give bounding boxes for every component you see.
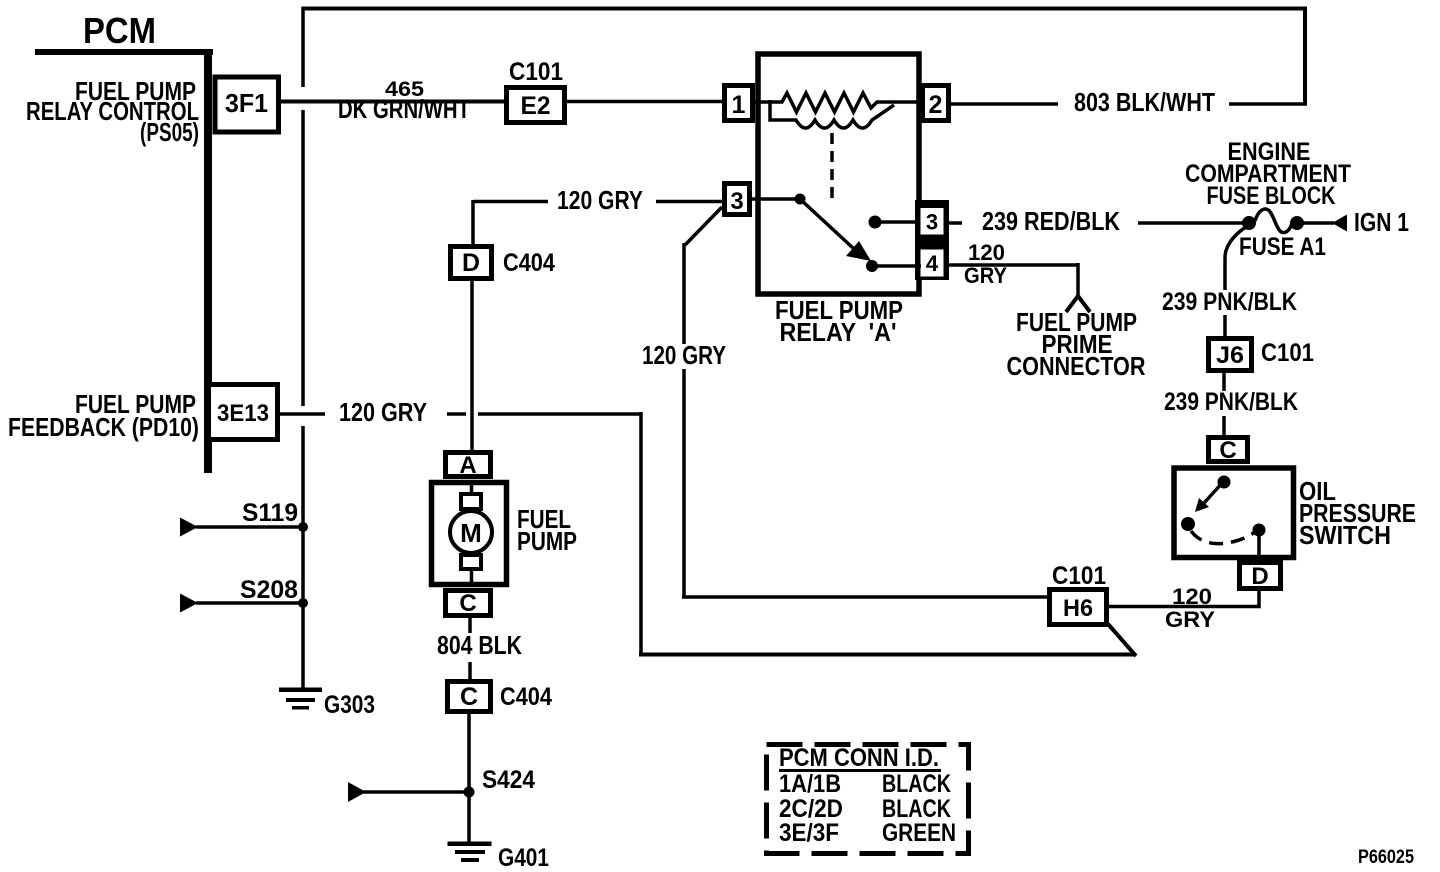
svg-text:120 GRY: 120 GRY (339, 397, 427, 427)
svg-text:3F1: 3F1 (225, 88, 268, 118)
svg-text:GREEN: GREEN (882, 819, 956, 847)
svg-text:C: C (1219, 437, 1236, 464)
top bus line (304, 7, 1307, 11)
relay switch blade arrowhead (846, 241, 871, 261)
fuse A1 right terminal dot (1290, 216, 1304, 230)
fuel pump relay A outer box (758, 54, 919, 294)
svg-text:DK GRN/WHT: DK GRN/WHT (338, 94, 470, 124)
splice S119 (180, 499, 308, 537)
connector C404 pin C box (448, 682, 491, 712)
svg-text:120 GRY: 120 GRY (642, 340, 726, 370)
relay dashed actuator line (830, 133, 834, 199)
svg-text:120: 120 (1172, 584, 1212, 609)
relay pin 3/4 right slab (915, 200, 949, 280)
label FUEL PUMP PRIME CONNECTOR (1007, 307, 1146, 381)
connector C404 pin D box (451, 247, 492, 279)
relay switch common wire (752, 197, 800, 201)
svg-text:C101: C101 (1052, 562, 1106, 590)
svg-text:C101: C101 (1261, 339, 1314, 367)
feedback wire long horizontal (639, 653, 1136, 657)
wire 120 GRY from C404 D up and right to relay pin 3 (473, 200, 548, 204)
svg-text:3E13: 3E13 (217, 400, 269, 427)
pin 3F1 box (215, 77, 279, 132)
wire 239 PNK/BLK below J6 (1222, 373, 1226, 391)
svg-text:BLACK: BLACK (882, 770, 951, 798)
relay switch pivot dot (795, 194, 806, 205)
left long vertical wire (with hops) (301, 7, 305, 88)
svg-text:S424: S424 (482, 766, 535, 794)
diagonal wire from relay pin 3 down (685, 207, 722, 245)
oil switch top contact dot (1218, 476, 1231, 489)
wire 120 GRY from relay pin 4 (944, 263, 1078, 267)
fuel pump prime connector fork (1066, 296, 1090, 312)
wire from C404 D down to fuel pump A (470, 281, 474, 452)
svg-text:239 PNK/BLK: 239 PNK/BLK (1162, 288, 1297, 316)
fuel pump body box (432, 483, 507, 585)
label OIL PRESSURE SWITCH (1299, 476, 1416, 550)
label FUEL PUMP FEEDBACK (PD10) (8, 389, 199, 442)
svg-text:E2: E2 (521, 92, 551, 120)
oil pressure switch body box (1174, 468, 1294, 558)
svg-text:D: D (1251, 563, 1268, 590)
svg-text:IGN 1: IGN 1 (1354, 207, 1409, 237)
svg-text:H6: H6 (1063, 595, 1093, 622)
svg-text:FUSE A1: FUSE A1 (1239, 233, 1326, 261)
fuse A1 element curve (1255, 209, 1292, 233)
fuel pump bottom tab (461, 555, 481, 569)
svg-text:G303: G303 (324, 691, 375, 719)
oil switch blade (1204, 481, 1224, 503)
oil switch left contact dot (1181, 517, 1195, 531)
svg-text:RELAY 'A': RELAY 'A' (780, 317, 897, 347)
svg-text:PUMP: PUMP (517, 526, 577, 556)
fuel pump top tab (461, 494, 481, 509)
relay pin 3 box left (725, 184, 750, 215)
svg-text:M: M (460, 518, 482, 548)
wire 803 BLK/WHT from pin 2 (949, 102, 1058, 106)
fuel pump motor circle M (450, 511, 492, 553)
relay pin 4 box (921, 250, 944, 277)
relay contact dot pin 4 (866, 260, 878, 272)
svg-text:C: C (460, 683, 478, 711)
relay pin 2 box (923, 86, 949, 121)
label FUEL PUMP RELAY CONTROL (PS05) (26, 76, 199, 147)
svg-text:3E/3F: 3E/3F (779, 819, 839, 847)
svg-text:GRY: GRY (964, 263, 1007, 288)
vertical 120 GRY wire to H6 (682, 243, 686, 344)
fuel pump pin C box (446, 591, 491, 616)
feedback wire diagonal joining H6 (1108, 624, 1136, 656)
svg-text:C404: C404 (500, 683, 552, 711)
svg-text:803 BLK/WHT: 803 BLK/WHT (1074, 87, 1215, 117)
fuse A1 left terminal dot (1242, 216, 1256, 230)
svg-text:PCM: PCM (83, 10, 156, 51)
splice S424 (348, 766, 535, 802)
fuel pump pin A box (446, 453, 491, 477)
connector C101 pin J6 box (1209, 339, 1252, 371)
wire 465 from E2 to relay pin 1 (567, 100, 724, 104)
wire 239 RED/BLK from relay pin 3 right (946, 221, 962, 225)
wire 120 GRY feedback from 3E13 (277, 412, 325, 416)
PCM underline bar (35, 49, 213, 55)
right bus vertical (1303, 7, 1307, 104)
oil switch dashed arc (1191, 530, 1257, 544)
oil pressure switch pin D box (1240, 563, 1281, 589)
svg-text:3: 3 (730, 188, 743, 215)
svg-text:G401: G401 (498, 844, 549, 872)
PCM CONN ID table dashed box (767, 745, 969, 854)
connector C101 pin H6 box (1050, 590, 1107, 625)
relay pin 1 box (725, 86, 753, 121)
connector E2 box (507, 88, 565, 123)
PCM vertical bus line (204, 49, 212, 473)
splice S208 (180, 576, 308, 613)
svg-text:J6: J6 (1216, 342, 1244, 369)
svg-text:CONNECTOR: CONNECTOR (1007, 351, 1146, 381)
svg-text:(PS05): (PS05) (140, 117, 199, 147)
wire contact to pin 4 (872, 264, 921, 268)
svg-text:120: 120 (968, 240, 1005, 265)
pin 3E13 box (209, 385, 278, 440)
fuel pump inner wire stubs (470, 482, 474, 495)
oil pressure switch pin C box (1209, 438, 1248, 462)
svg-text:239 PNK/BLK: 239 PNK/BLK (1164, 388, 1298, 416)
wire 239 PNK/BLK curving down from fuse (1225, 227, 1246, 290)
svg-text:SWITCH: SWITCH (1299, 520, 1391, 550)
wire horizontal to H6 (682, 595, 1047, 599)
svg-text:S119: S119 (242, 499, 298, 527)
relay coil winding (770, 100, 894, 128)
relay coil resistor zigzag (755, 93, 922, 112)
wire vertical into C404 D (471, 200, 475, 246)
relay contact dot pin 3 right (869, 216, 882, 229)
oil switch blade arrowhead (1195, 498, 1209, 512)
svg-text:1: 1 (732, 91, 746, 119)
svg-text:GRY: GRY (1165, 607, 1215, 632)
wire 120 GRY from H6 to oil switch D (1109, 589, 1259, 607)
relay switch blade (800, 199, 853, 248)
svg-text:PCM CONN I.D.: PCM CONN I.D. (779, 744, 939, 772)
svg-text:C101: C101 (509, 58, 563, 86)
svg-text:120 GRY: 120 GRY (557, 185, 643, 215)
svg-text:A: A (459, 452, 476, 479)
svg-text:D: D (462, 249, 480, 277)
label ENGINE COMPARTMENT FUSE BLOCK (1185, 138, 1351, 210)
svg-text:4: 4 (926, 251, 939, 276)
ground G401 (448, 842, 550, 872)
IGN 1 arrowhead (1332, 215, 1347, 232)
ground G303 (279, 688, 375, 720)
wire contact to pin 3 right (875, 220, 920, 224)
relay pin 3 box right (921, 208, 944, 235)
svg-text:P66025: P66025 (1358, 847, 1414, 868)
wire 804 BLK dashes (468, 618, 472, 633)
wire to IGN 1 (1303, 221, 1334, 225)
svg-text:C404: C404 (503, 249, 555, 277)
label FUEL PUMP RELAY 'A' (775, 295, 903, 347)
svg-text:FEEDBACK (PD10): FEEDBACK (PD10) (8, 412, 199, 442)
svg-text:C: C (459, 590, 476, 617)
svg-text:1A/1B: 1A/1B (779, 770, 841, 798)
oil switch right contact dot (1253, 524, 1266, 537)
wire 465 DK GRN/WHT from 3F1 to C101 E2 (279, 100, 504, 104)
wire from C404 C to G401 (467, 714, 471, 843)
feedback wire vertical down (639, 412, 643, 656)
svg-text:FUSE BLOCK: FUSE BLOCK (1207, 182, 1336, 210)
svg-text:239 RED/BLK: 239 RED/BLK (982, 206, 1120, 236)
label FUEL PUMP (517, 504, 577, 556)
svg-text:3: 3 (926, 210, 938, 235)
svg-text:2: 2 (929, 91, 943, 119)
svg-text:804 BLK: 804 BLK (437, 630, 522, 660)
svg-text:S208: S208 (240, 576, 298, 604)
